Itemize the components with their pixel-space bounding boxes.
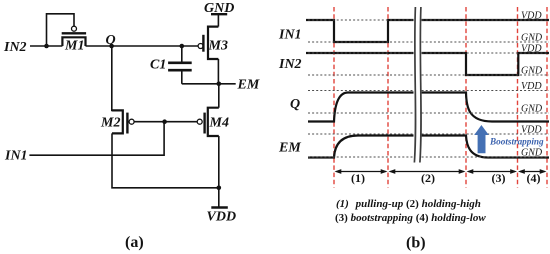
wire EM line xyxy=(182,83,236,85)
wire M2 gate to M4 gate xyxy=(134,121,197,123)
transistor M1 xyxy=(62,26,86,53)
svg-text:M2: M2 xyxy=(100,115,120,130)
svg-text:GND: GND xyxy=(204,1,234,16)
phase span arrow (3) xyxy=(467,169,518,174)
level line IN2 GND (dashed) xyxy=(308,74,549,76)
svg-text:VDD: VDD xyxy=(521,44,542,55)
svg-text:(b): (b) xyxy=(406,235,426,252)
power VDD symbol xyxy=(207,208,237,225)
phase span arrow (4) xyxy=(518,169,547,174)
svg-text:GND: GND xyxy=(521,148,543,159)
wire M2 source down to bottom rail xyxy=(112,133,219,187)
svg-text:(3) bootstrapping (4) holding-: (3) bootstrapping (4) holding-low xyxy=(335,212,486,224)
transistor M4 xyxy=(197,108,229,136)
node junction IN2/gate xyxy=(44,44,49,49)
wire M1 gate loop xyxy=(47,14,75,46)
phase span arrow (2) xyxy=(389,169,466,174)
phase span arrow (1) xyxy=(335,169,388,174)
node gate junction xyxy=(162,119,167,124)
svg-text:VDD: VDD xyxy=(521,81,542,92)
transistor M3 xyxy=(198,27,228,59)
svg-text:M1: M1 xyxy=(64,39,84,54)
svg-text:Q: Q xyxy=(106,33,116,48)
svg-text:VDD: VDD xyxy=(207,210,237,225)
wire M1 drain to Q to M3 gate xyxy=(86,45,199,47)
svg-text:GND: GND xyxy=(521,66,543,77)
phase boundary t3 (red dashed) xyxy=(465,7,467,188)
wire EM node down to M4 drain xyxy=(218,84,220,108)
svg-text:EM: EM xyxy=(278,141,301,156)
ground GND symbol xyxy=(204,1,234,16)
svg-text:C1: C1 xyxy=(150,57,166,72)
svg-text:(4): (4) xyxy=(527,171,541,185)
svg-text:(3): (3) xyxy=(492,171,506,185)
svg-text:Q: Q xyxy=(290,97,300,112)
wire M3 drain to GND rail xyxy=(217,14,219,26)
phase boundary t2 (red dashed) xyxy=(387,7,389,188)
waveform Q xyxy=(308,93,549,122)
svg-text:EM: EM xyxy=(237,77,260,92)
svg-text:(2): (2) xyxy=(421,171,435,185)
phase boundary t5 (red dashed) xyxy=(546,7,548,188)
svg-text:(a): (a) xyxy=(125,234,144,251)
level line IN1 GND (dashed) xyxy=(308,41,549,43)
level line IN2 VDD (dashed) xyxy=(308,52,549,54)
svg-text:Bootstrapping: Bootstrapping xyxy=(489,137,544,147)
capacitor C1 xyxy=(150,46,192,84)
level line Q GND (dashed) xyxy=(308,112,549,114)
wire VDD stub xyxy=(218,188,220,208)
waveform IN1 xyxy=(306,20,549,42)
level line EM GND (dashed) xyxy=(308,156,549,158)
waveform IN2 xyxy=(306,53,549,75)
svg-text:VDD: VDD xyxy=(521,125,542,136)
svg-text:IN2: IN2 xyxy=(278,57,302,72)
svg-text:M4: M4 xyxy=(209,115,229,130)
svg-text:(1): (1) xyxy=(351,171,365,185)
level line EM VDD (dashed) xyxy=(308,133,549,135)
svg-text:IN1: IN1 xyxy=(4,149,28,164)
svg-text:IN2: IN2 xyxy=(3,40,27,55)
svg-text:VDD: VDD xyxy=(521,11,542,22)
phase boundary t4 (red dashed) xyxy=(517,7,519,188)
wire Q down to M2 drain xyxy=(112,46,123,110)
wire M3 source down to EM node xyxy=(217,59,219,84)
node Q xyxy=(109,44,114,49)
node C1 top junction xyxy=(180,44,185,49)
phase boundary t1 (red dashed) xyxy=(333,7,335,188)
level line Q VDD (dashed) xyxy=(308,90,549,92)
svg-text:GND: GND xyxy=(521,33,543,44)
wire M4 source down to bottom rail xyxy=(218,136,220,188)
svg-text:IN1: IN1 xyxy=(278,28,302,43)
level line IN1 VDD (dashed) xyxy=(308,19,549,21)
time break symbol xyxy=(414,7,421,163)
svg-text:M3: M3 xyxy=(208,39,228,54)
svg-text:(1) pulling-up (2) holding-hig: (1) pulling-up (2) holding-high xyxy=(336,198,481,210)
node VDD junction xyxy=(217,186,222,191)
wire IN1 to gates xyxy=(29,122,164,156)
wire IN2 to M1 source xyxy=(30,45,62,47)
svg-text:GND: GND xyxy=(521,104,543,115)
waveform EM xyxy=(308,136,549,158)
annotation arrow Bootstrapping xyxy=(474,125,489,153)
transistor M2 xyxy=(100,110,134,133)
node EM junction xyxy=(217,82,222,87)
